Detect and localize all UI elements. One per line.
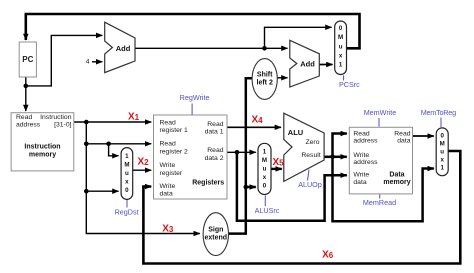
svg-text:data 1: data 1 (205, 128, 224, 135)
wire instruction branch to RegDst mux input 1 (109, 144, 119, 156)
svg-text:address: address (353, 159, 378, 166)
svg-text:u: u (440, 149, 444, 156)
svg-text:Instruction: Instruction (40, 114, 72, 121)
svg-text:M: M (124, 162, 129, 169)
svg-text:ALUOp: ALUOp (298, 180, 322, 189)
svg-text:Add: Add (116, 44, 131, 53)
svg-text:PC: PC (22, 55, 33, 64)
svg-text:x: x (339, 52, 343, 59)
svg-text:Read: Read (207, 121, 223, 128)
wire instruction branch to RegDst mux input 0 (86, 190, 118, 192)
wire second Add output to PCSrc mux input 1 (319, 64, 332, 66)
svg-text:x: x (125, 179, 129, 186)
wire PC+4 branch to Add (26, 35, 103, 86)
wire PC update loop (mux output to PC, top) (26, 14, 360, 48)
svg-text:address: address (353, 138, 378, 145)
svg-text:PCSrc: PCSrc (339, 80, 360, 89)
svg-text:4: 4 (86, 59, 90, 66)
control label ALUOp (298, 170, 322, 190)
wire ALUSrc mux output to ALU (X5) (271, 168, 282, 170)
svg-text:Shift: Shift (257, 71, 273, 78)
svg-text:0: 0 (125, 187, 129, 194)
wire Add output (PC+4) to second Add and PCSrc mux 0 (135, 47, 288, 49)
svg-text:Result: Result (301, 152, 320, 159)
svg-text:x: x (440, 157, 444, 164)
svg-text:u: u (339, 43, 343, 50)
svg-text:X4: X4 (251, 115, 263, 126)
svg-text:Write: Write (160, 183, 176, 190)
svg-text:Read: Read (160, 119, 176, 126)
svg-text:[31-0]: [31-0] (54, 122, 71, 129)
shift left 2 (252, 59, 277, 100)
mux MemToReg (436, 128, 448, 176)
svg-text:0: 0 (339, 25, 343, 32)
svg-text:Add: Add (300, 60, 315, 69)
svg-text:Read: Read (16, 114, 32, 121)
svg-text:Sign: Sign (208, 226, 223, 233)
svg-text:address: address (16, 122, 41, 129)
svg-text:register 1: register 1 (160, 127, 189, 134)
control label RegWrite (180, 93, 210, 114)
svg-text:Read: Read (353, 130, 369, 137)
svg-text:x: x (263, 174, 267, 181)
svg-text:data: data (353, 179, 366, 186)
sign extend (203, 213, 228, 256)
svg-text:left 2: left 2 (257, 79, 273, 86)
wire shift left 2 output to second Add (277, 77, 287, 79)
svg-text:0: 0 (263, 183, 267, 190)
constant 4 input to Add (86, 59, 103, 66)
svg-text:memory: memory (383, 179, 410, 186)
svg-text:data: data (397, 138, 410, 145)
svg-text:MemRead: MemRead (363, 198, 396, 207)
svg-text:1: 1 (339, 62, 343, 69)
svg-text:1: 1 (263, 149, 267, 156)
svg-text:M: M (262, 157, 267, 164)
wire ALU result to data memory Read address (324, 156, 332, 159)
svg-text:Read: Read (394, 130, 410, 137)
wire PC output down to instruction memory (25, 77, 27, 111)
svg-text:Write: Write (353, 152, 369, 159)
mux PCSrc (335, 21, 347, 75)
svg-text:X6: X6 (322, 250, 334, 261)
wire data memory Read data to MemToReg mux input 0 (413, 135, 434, 137)
svg-text:data 2: data 2 (205, 155, 224, 162)
svg-text:X2: X2 (137, 157, 149, 168)
wire Read data 2 to ALUSrc mux input 1 (227, 151, 256, 153)
svg-text:Registers: Registers (192, 179, 224, 186)
wire Read data 2 down to data memory Write data (237, 152, 347, 221)
mux ALUSrc (258, 143, 271, 194)
wire ALU result down to MemToReg mux input 1 (333, 157, 434, 222)
svg-text:ALU: ALU (288, 128, 303, 137)
svg-text:Data: Data (389, 172, 404, 179)
wire Read data 1 to ALU (X4) (227, 126, 281, 128)
ALU (284, 113, 324, 181)
registers file (154, 115, 228, 199)
data memory (349, 127, 412, 194)
node PC output junction (24, 84, 29, 89)
svg-text:data: data (160, 190, 173, 197)
svg-text:Instruction: Instruction (24, 143, 60, 150)
node ALU result junction (330, 155, 335, 160)
svg-text:M: M (338, 34, 343, 41)
wire RegDst mux output to Write register (133, 169, 152, 171)
svg-text:0: 0 (440, 133, 444, 140)
mux RegDst (121, 148, 133, 200)
adder Add (branch target) (290, 40, 320, 87)
control label MemRead (363, 195, 396, 207)
svg-text:Write: Write (160, 162, 176, 169)
svg-text:register: register (160, 170, 183, 177)
svg-text:1: 1 (440, 165, 444, 172)
wire sign extend output up to shift left 2 and ALUSrc mux input 0 (229, 78, 253, 233)
svg-text:u: u (263, 166, 267, 173)
svg-text:X1: X1 (128, 112, 140, 123)
svg-text:Zero: Zero (306, 139, 320, 146)
svg-text:register 2: register 2 (160, 149, 189, 156)
control label PCSrc (339, 76, 360, 90)
control label ALUSrc (255, 196, 280, 215)
svg-text:1: 1 (125, 153, 129, 160)
svg-text:ALUSrc: ALUSrc (255, 206, 280, 215)
register PC (19, 42, 36, 77)
svg-text:X3: X3 (162, 223, 174, 234)
svg-text:MemToReg: MemToReg (421, 108, 456, 117)
svg-text:Read: Read (160, 141, 176, 148)
control label RegDst (115, 200, 139, 217)
svg-text:RegDst: RegDst (115, 208, 139, 217)
svg-text:RegWrite: RegWrite (180, 93, 210, 102)
wire instruction to read register 2 (86, 143, 151, 145)
control label MemWrite (364, 108, 397, 126)
node instruction bus junctions (84, 120, 89, 125)
svg-text:extend: extend (205, 235, 228, 242)
svg-text:M: M (440, 141, 445, 148)
instruction memory (11, 113, 74, 171)
node sign extend output junction (244, 185, 249, 190)
adder Add (PC+4) (105, 22, 135, 72)
wire ALU result to data memory Write address (333, 156, 347, 159)
svg-text:X5: X5 (272, 157, 284, 168)
svg-text:Read: Read (207, 147, 223, 154)
node Read data 2 junction (235, 150, 240, 155)
node PC+4 junction (262, 46, 267, 51)
svg-text:Write: Write (353, 171, 369, 178)
svg-text:u: u (125, 170, 129, 177)
wire instruction bus from instruction memory (74, 121, 151, 123)
control label MemToReg (421, 108, 456, 127)
svg-text:MemWrite: MemWrite (364, 108, 397, 117)
svg-text:memory: memory (29, 152, 56, 159)
wire MemToReg mux output back to registers Write data (X6 loop) (143, 151, 460, 264)
